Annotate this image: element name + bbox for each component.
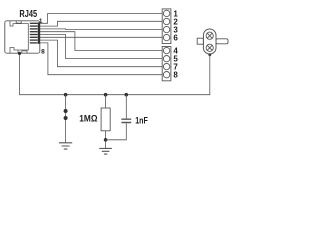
junction dot capacitor xyxy=(125,93,129,97)
terminal circle 1 xyxy=(163,10,169,16)
wire pin2 to terminal 2 xyxy=(40,21,162,26)
capacitor C1 lead bottom xyxy=(106,123,127,140)
wire pin1 to terminal 1 xyxy=(40,14,162,24)
ground symbol middle xyxy=(99,148,112,154)
terminal circle 4 xyxy=(163,47,169,53)
RJ45 pin comb bar xyxy=(38,22,40,43)
capacitor C1 plates xyxy=(121,119,131,122)
connector J1 RJ45 jack body xyxy=(5,21,40,53)
RJ45 jack cavity outline xyxy=(10,21,28,53)
terminal block X2 (4,5,7,8) xyxy=(162,47,171,81)
junction dot resistor xyxy=(104,93,108,97)
svg-text:8: 8 xyxy=(41,49,45,56)
spark gap electrode dots xyxy=(64,109,68,113)
resistor R1 lead top xyxy=(105,95,107,108)
rail contact lower screw circle xyxy=(206,44,213,51)
wire pin4 to terminal 4 xyxy=(40,32,162,51)
rail contact right tab xyxy=(216,39,228,44)
rail ground contact symbol body xyxy=(203,29,216,54)
junction dot resistor-capacitor xyxy=(104,138,108,142)
wire pin7 to terminal 7 xyxy=(40,40,162,67)
ground symbol left xyxy=(59,143,72,149)
terminal circle 8 xyxy=(163,72,169,78)
RJ45 jack bottom notch xyxy=(22,51,27,53)
RJ45 pins 1-8 xyxy=(30,23,38,44)
svg-text:8: 8 xyxy=(173,71,178,80)
svg-text:6: 6 xyxy=(173,34,178,43)
spark gap wire xyxy=(65,95,67,143)
terminal circle 5 xyxy=(163,56,169,62)
junction dot at jack shield xyxy=(18,52,21,55)
svg-text:1MΩ: 1MΩ xyxy=(79,114,98,124)
svg-text:1nF: 1nF xyxy=(135,116,148,126)
terminal circle 6 xyxy=(163,34,169,40)
junction dot spark gap xyxy=(64,93,68,97)
terminal block X1 (1,2,3,6) xyxy=(162,9,171,44)
shield wire from jack to ground bus xyxy=(20,53,210,94)
wire pin3 to terminal 3 xyxy=(40,28,162,31)
rail contact upper screw circle xyxy=(206,32,213,39)
resistor R1 body xyxy=(101,108,110,131)
RJ45 jack top notch xyxy=(16,21,21,23)
wire pin8 to terminal 8 xyxy=(40,43,162,75)
terminal circle 7 xyxy=(163,63,169,69)
resistor R1 lead bottom xyxy=(105,131,107,148)
wire pin5 to terminal 5 xyxy=(40,35,162,59)
terminal circle 2 xyxy=(163,18,169,24)
capacitor C1 lead top xyxy=(125,95,127,119)
svg-text:RJ45: RJ45 xyxy=(19,9,37,20)
terminal circle 3 xyxy=(163,26,169,32)
rail contact left tab xyxy=(197,38,203,44)
rail contact attach dot xyxy=(208,53,211,56)
svg-text:1: 1 xyxy=(39,18,43,25)
wire pin6 to terminal 6 xyxy=(40,36,162,38)
